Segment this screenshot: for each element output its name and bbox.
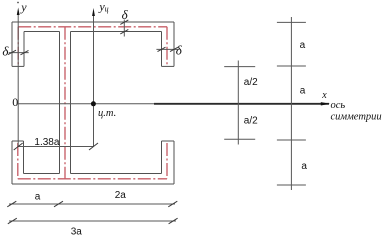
right dim tick 4 <box>277 184 306 186</box>
svg-text:δ: δ <box>176 43 183 58</box>
svg-text:2a: 2a <box>115 190 127 201</box>
centerline bottom flange <box>18 178 167 180</box>
delta top slash at flange bottom <box>120 30 128 34</box>
top left lip bottom edge <box>12 65 24 67</box>
svg-text:1.38a: 1.38a <box>34 137 59 148</box>
centerline top left lip <box>17 27 19 65</box>
svg-text:x: x <box>321 90 327 101</box>
centroid dot <box>91 101 96 106</box>
top right lip bottom edge <box>162 65 175 67</box>
svg-text:a/2: a/2 <box>244 116 258 127</box>
svg-text:a/2: a/2 <box>244 77 258 88</box>
svg-text:ц.т.: ц.т. <box>98 108 116 119</box>
delta top slash at flange top <box>120 20 128 24</box>
top left lip outer edge <box>11 22 13 66</box>
a/2 tick bottom <box>224 138 255 140</box>
bottom right lip inner edge <box>161 141 163 174</box>
svg-text:a: a <box>301 161 307 172</box>
delta left slash at lip outer <box>8 50 16 54</box>
bottom dim slash right <box>168 201 177 207</box>
bottom left lip inner edge <box>23 141 25 174</box>
centerline bottom left lip <box>17 143 19 179</box>
centerline bottom right lip <box>166 143 168 179</box>
bottom dimension line a / 2a <box>9 203 175 205</box>
svg-text:δ: δ <box>122 7 129 22</box>
right a dimension vertical line <box>290 17 292 190</box>
y1 (centroidal) axis line <box>93 12 95 147</box>
3a dim slash left <box>8 218 17 224</box>
svg-text:3a: 3a <box>71 226 83 237</box>
section outline: top flange bottom edge right segment <box>71 31 162 33</box>
1.38a slash left <box>14 143 23 150</box>
right dim tick 2 <box>277 65 306 67</box>
centerline top right lip <box>166 27 168 65</box>
delta right slash at lip outer <box>170 47 178 51</box>
y axis line <box>17 12 19 147</box>
delta left slash at lip inner <box>21 50 29 54</box>
bottom right lip outer edge <box>173 141 175 184</box>
svg-text:a: a <box>35 191 41 202</box>
svg-text:δ: δ <box>2 43 9 58</box>
1.38a slash right <box>89 143 98 150</box>
web left edge <box>59 32 61 174</box>
y axis arrowhead <box>17 8 20 16</box>
bottom left lip outer edge <box>11 141 13 184</box>
svg-text:y: y <box>20 0 27 14</box>
y1 axis arrowhead <box>92 8 95 16</box>
svg-text:0: 0 <box>12 95 18 109</box>
x axis (thick) <box>154 103 329 105</box>
bottom dim slash left <box>7 201 16 207</box>
right dim tick 1 <box>277 21 306 23</box>
1.38a dimension line <box>18 146 93 148</box>
right dim tick 3 <box>277 139 306 141</box>
bottom flange bottom edge <box>12 183 174 185</box>
svg-text:a: a <box>300 86 306 97</box>
a/2 dimension vertical line <box>237 61 239 145</box>
delta dimension right: line <box>156 48 178 50</box>
bottom left lip top edge <box>12 140 24 142</box>
delta dimension top: line <box>123 20 125 37</box>
svg-text:ось: ось <box>331 100 346 111</box>
svg-text:симметрии: симметрии <box>331 112 382 123</box>
web right edge <box>70 32 72 174</box>
top right lip outer edge <box>173 22 175 66</box>
bottom dim slash middle <box>54 201 63 207</box>
section outline: top flange bottom edge left segment <box>24 31 60 33</box>
bottom flange top edge right segment <box>71 173 162 175</box>
y axis arrow tip speck <box>17 2 18 3</box>
section outline: top flange top edge <box>12 21 174 23</box>
red centerlines <box>18 27 167 179</box>
delta dimension left: line <box>9 52 29 54</box>
bottom dimension line 3a <box>9 220 176 222</box>
top right lip inner edge <box>161 32 163 67</box>
centerline top flange <box>18 26 167 28</box>
svg-text:a: a <box>300 40 306 51</box>
x axis arrowhead <box>321 102 330 105</box>
centerline web <box>64 27 66 179</box>
3a dim slash right <box>169 218 178 224</box>
svg-text:ц: ц <box>105 5 109 14</box>
bottom flange top edge left segment <box>24 173 60 175</box>
delta right slash at lip inner <box>158 47 166 51</box>
bottom right lip top edge <box>162 140 175 142</box>
top left lip inner edge <box>23 32 25 67</box>
a/2 tick top <box>224 66 255 68</box>
zero axis line (thin) <box>18 103 154 105</box>
